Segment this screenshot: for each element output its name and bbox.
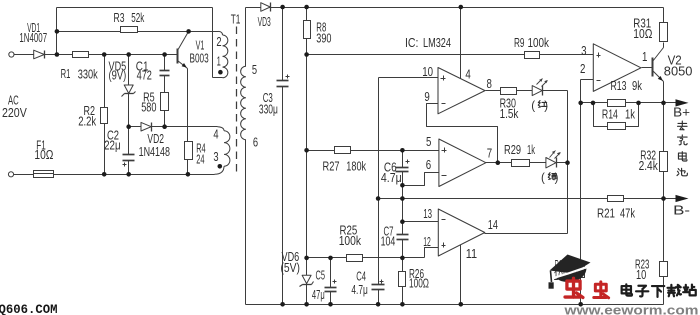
svg-text:3: 3	[213, 150, 218, 164]
svg-text:R3: R3	[114, 11, 125, 25]
svg-text:580: 580	[141, 100, 156, 114]
svg-text:3: 3	[581, 44, 586, 58]
svg-text:180k: 180k	[346, 159, 366, 173]
svg-text:10: 10	[636, 268, 646, 282]
svg-text:9: 9	[424, 90, 429, 104]
svg-text:330k: 330k	[78, 68, 99, 82]
svg-text:6: 6	[253, 136, 258, 150]
svg-text:2: 2	[580, 62, 585, 76]
svg-text:1: 1	[217, 55, 221, 69]
svg-text:1N4007: 1N4007	[19, 31, 47, 45]
svg-text:47μ: 47μ	[312, 288, 325, 302]
svg-text:R21: R21	[597, 207, 615, 221]
svg-text:2.2k: 2.2k	[78, 115, 97, 129]
svg-text:390: 390	[316, 32, 331, 46]
svg-text:(5V): (5V)	[281, 261, 301, 275]
svg-text:100k: 100k	[339, 234, 362, 248]
svg-text:): )	[544, 100, 548, 112]
svg-text:4.7μ: 4.7μ	[351, 283, 368, 297]
svg-text:472: 472	[137, 69, 152, 83]
svg-text:22μ: 22μ	[104, 139, 121, 153]
svg-text:4.7μ: 4.7μ	[381, 171, 402, 185]
svg-text:(: (	[531, 100, 535, 112]
svg-text:B-: B-	[673, 202, 690, 217]
svg-text:C4: C4	[356, 269, 366, 283]
svg-text:9k: 9k	[632, 79, 643, 93]
svg-text:1k: 1k	[625, 107, 636, 121]
svg-text:Q606.COM: Q606.COM	[0, 302, 58, 315]
svg-text:10Ω: 10Ω	[633, 27, 652, 41]
svg-text:1.5k: 1.5k	[500, 107, 519, 121]
svg-text:4: 4	[213, 127, 218, 141]
svg-text:www.eeworm.com: www.eeworm.com	[563, 303, 698, 315]
svg-text:13: 13	[423, 207, 432, 221]
svg-text:C5: C5	[316, 268, 326, 282]
svg-text:): )	[555, 173, 559, 185]
svg-text:104: 104	[381, 235, 396, 249]
svg-text:R9: R9	[514, 36, 525, 50]
svg-text:14: 14	[488, 218, 498, 232]
svg-text:12: 12	[423, 235, 431, 249]
svg-text:1: 1	[642, 50, 647, 64]
svg-text:R14: R14	[602, 107, 618, 121]
svg-text:47k: 47k	[620, 207, 636, 221]
svg-text:T1: T1	[231, 13, 241, 27]
svg-text:24: 24	[196, 152, 204, 166]
svg-text:VD3: VD3	[258, 15, 271, 29]
svg-text:330μ: 330μ	[259, 103, 278, 117]
svg-text:5: 5	[426, 135, 431, 149]
svg-text:8050: 8050	[664, 64, 693, 78]
svg-text:4: 4	[465, 68, 470, 82]
svg-text:R27: R27	[323, 159, 340, 173]
svg-text:100k: 100k	[528, 36, 550, 50]
svg-text:10Ω: 10Ω	[34, 148, 53, 162]
svg-text:2: 2	[216, 35, 221, 49]
svg-text:1k: 1k	[527, 143, 535, 157]
svg-text:R1: R1	[61, 67, 71, 81]
svg-text:(: (	[541, 173, 545, 185]
svg-text:B+: B+	[673, 105, 690, 120]
svg-text:220V: 220V	[2, 106, 27, 120]
svg-text:LM324: LM324	[423, 36, 451, 50]
svg-text:52k: 52k	[131, 11, 144, 25]
svg-text:2.4k: 2.4k	[639, 159, 659, 173]
svg-text:IC:: IC:	[405, 36, 419, 50]
svg-text:1N4148: 1N4148	[139, 145, 170, 159]
svg-text:7: 7	[487, 147, 492, 161]
svg-text:R13: R13	[611, 79, 627, 93]
svg-text:(9V): (9V)	[109, 69, 127, 83]
svg-text:11: 11	[466, 247, 477, 261]
svg-text:B003: B003	[190, 52, 209, 66]
svg-text:5: 5	[252, 63, 257, 77]
svg-text:100Ω: 100Ω	[409, 276, 429, 290]
svg-text:8: 8	[487, 77, 492, 91]
svg-text:R29: R29	[504, 143, 521, 157]
svg-text:VD2: VD2	[147, 132, 164, 146]
svg-text:10: 10	[422, 65, 433, 79]
svg-text:V1: V1	[196, 38, 205, 52]
svg-text:6: 6	[426, 158, 431, 172]
